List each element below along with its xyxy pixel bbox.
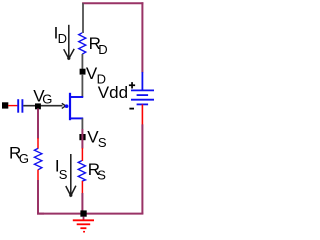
wire RG bottom lead (red) [37,170,39,181]
arrow ID (current direction) [64,25,74,60]
wire VG down to RG (crimson) [37,109,39,139]
wire top rail (Vdd net) [82,2,143,4]
battery plus sign [129,82,135,88]
transistor Q1 (N-channel JFET) [70,93,83,120]
wire right rail lower (crimson) [141,124,143,213]
node VD (junction dot) [80,69,86,75]
label RG [9,144,29,166]
battery Vdd plates [131,90,154,104]
svg-text:G: G [19,151,29,166]
resistor RS [78,161,85,182]
wire from top rail down to RD [82,3,84,33]
wire VD to drain [81,74,83,97]
gate junction dot (blue) [65,104,69,108]
label Vdd [98,83,128,102]
label VD [86,64,106,86]
label ID [54,23,67,46]
wire terminal to capacitor (red stub) [8,105,17,107]
wire RS to bottom junction (crimson) [81,193,83,214]
battery negative lead (red) [141,104,143,124]
wire capacitor to gate [23,105,62,107]
resistor RD [79,33,86,54]
svg-text:S: S [59,167,68,182]
capacitor C1 [18,99,22,113]
wire VS node (crimson) [81,129,83,149]
label VS [87,128,107,150]
wire source lead down to VS [81,118,83,129]
battery Vdd positive lead (blue) [141,72,143,90]
wire RS top lead (red) [81,148,83,161]
arrow IS (current direction) [66,154,76,197]
input terminal (black square) [2,102,8,108]
label VG [33,86,52,106]
label RD [89,34,108,57]
svg-text:D: D [58,31,67,46]
wire bottom rail (ground net) [37,213,143,215]
resistor RG [34,148,42,169]
wire RS bottom lead (red) [81,181,83,193]
wire right rail upper (crimson) [141,2,143,72]
svg-text:G: G [42,91,52,106]
bottom junction node (dot) [80,210,86,216]
wire junction to ground (stub) [83,217,85,220]
battery minus sign [129,108,134,110]
svg-text:S: S [97,168,106,183]
gate arrowhead [62,103,66,108]
node VS (junction dot) [79,134,85,140]
svg-text:D: D [98,42,107,57]
node VG (junction dot) [35,103,41,109]
label IS [55,156,68,182]
label RS [88,160,107,183]
wire RG top lead (red) [37,138,39,149]
wire RD to node VD [81,54,83,69]
svg-text:Vdd: Vdd [98,83,128,102]
svg-text:S: S [98,135,107,150]
ground [73,220,94,231]
wire RG to bottom rail (crimson) [38,180,44,214]
